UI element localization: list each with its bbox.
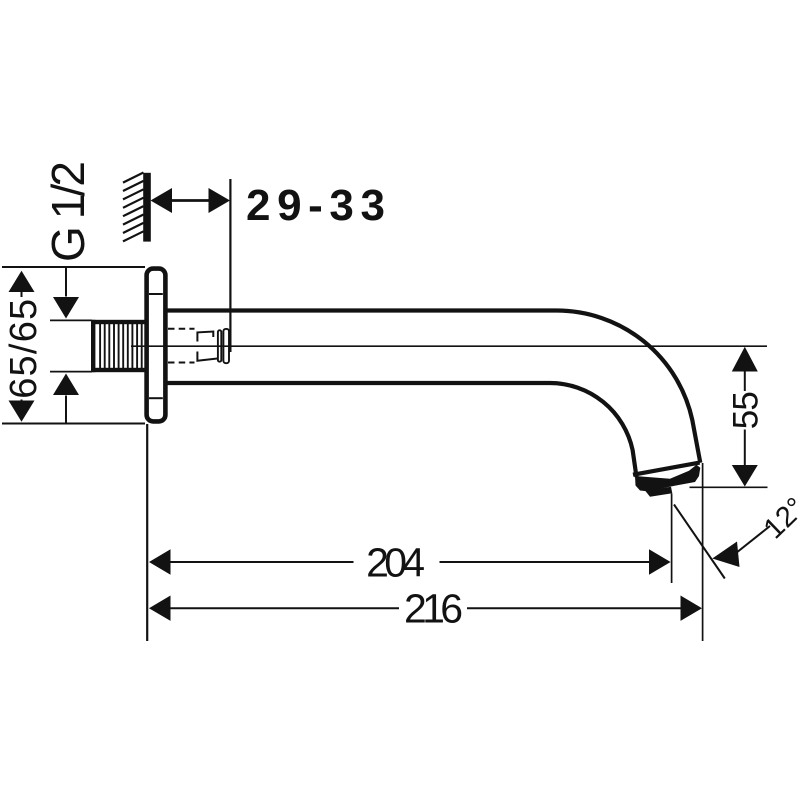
spout bottom outline: [167, 383, 637, 477]
65/65 ext line top: [2, 266, 145, 268]
216 dim line left segment: [170, 607, 399, 609]
svg-text:55: 55: [727, 391, 766, 429]
12 deg leader line: [731, 526, 770, 557]
hidden connector dashed top: [168, 328, 195, 330]
aerator bottom lip: [645, 487, 672, 497]
65/65 arrow down: [9, 401, 35, 422]
svg-text:29-33: 29-33: [246, 181, 385, 230]
55 arrow down: [732, 465, 758, 487]
65/65 arrow up: [9, 271, 35, 292]
dim 29-33 arrow left: [151, 188, 173, 213]
left ext line wall: [146, 424, 148, 641]
spout end cap line: [633, 463, 700, 475]
aerator black band: [635, 465, 700, 492]
svg-text:65/65: 65/65: [3, 299, 45, 399]
204 ext line right: [671, 494, 673, 584]
65/65 ext line bottom: [2, 423, 145, 425]
screw head bar 1: [218, 330, 221, 361]
dim 29-33 line: [171, 199, 209, 202]
G1/2 leader lower: [65, 396, 67, 424]
55 arrow up: [732, 347, 758, 372]
G1/2 leader upper: [65, 268, 67, 297]
hidden connector dashed bottom: [168, 362, 195, 364]
55 dim stub bottom: [744, 430, 746, 466]
flange step line bottom: [149, 397, 163, 399]
escutcheon flange: [147, 269, 166, 422]
wall hatch: [123, 173, 144, 242]
65/65 dim stub top: [21, 292, 23, 297]
G1/2 ext line pipe bottom: [50, 371, 92, 373]
55 dim stub top: [744, 368, 746, 391]
wall face line: [143, 173, 151, 242]
204 arrow left: [149, 549, 171, 574]
svg-text:204: 204: [366, 539, 425, 585]
G1/2 arrow down: [53, 297, 79, 319]
12 deg face extension line: [674, 505, 725, 579]
G1/2 arrow up: [53, 374, 79, 396]
hidden cone bottom: [197, 352, 218, 361]
G1/2 ext line pipe top: [50, 319, 92, 321]
svg-text:G 1/2: G 1/2: [42, 161, 94, 262]
screw head bar 2: [223, 329, 229, 363]
threaded pipe G1/2: [91, 320, 146, 372]
204 dim line right segment: [440, 561, 651, 563]
216 arrow left: [149, 596, 171, 621]
dim 29-33 extension line: [229, 179, 231, 352]
204 dim line left segment: [170, 561, 354, 563]
55 ext line bottom: [690, 486, 768, 488]
flange step line top: [149, 293, 163, 295]
pipe thread lines: [100, 324, 142, 368]
hidden cone top: [197, 332, 213, 342]
svg-text:216: 216: [404, 586, 463, 632]
65/65 dim stub bottom: [21, 400, 23, 404]
spout top outline: [167, 311, 700, 463]
216 ext line right: [702, 463, 704, 641]
centerline: [131, 345, 767, 347]
216 dim line right segment: [467, 607, 681, 609]
12 deg leader arrow: [712, 542, 739, 568]
216 arrow right: [681, 596, 703, 621]
dim 29-33 arrow right: [209, 188, 231, 213]
204 arrow right: [649, 549, 671, 574]
